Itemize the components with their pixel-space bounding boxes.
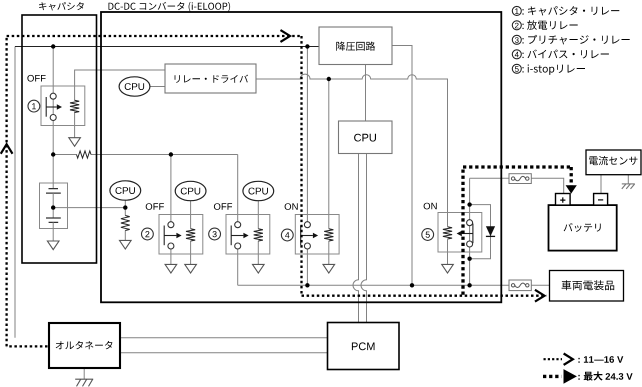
fuse F2 (vehicle loads feed)	[509, 280, 531, 291]
label step-down circuit	[336, 42, 375, 51]
EDLC capacitor element box	[40, 183, 68, 229]
wire relay5 switch vertical	[469, 178, 471, 285]
wire alternator to PCM (2 lines)	[120, 338, 328, 353]
arrow up 11-16V	[1, 144, 12, 153]
block battery	[549, 205, 617, 251]
ground (relay5 coil)	[442, 264, 454, 273]
wire capacitor branch vertical	[52, 47, 54, 189]
CPU (capacitor sense)	[110, 181, 141, 200]
label - terminal	[598, 199, 603, 200]
label ON relay4	[285, 203, 298, 210]
chassis ground (alternator)	[75, 378, 93, 380]
node discharge left	[51, 152, 55, 156]
node capacitor branch	[51, 44, 55, 48]
legend 11-16V arrow	[565, 354, 573, 364]
capacitor unit enclosure box	[22, 15, 97, 263]
node CPU sense	[123, 205, 127, 209]
wire relay2 switch ground lead	[170, 249, 172, 265]
block current sensor	[586, 150, 641, 175]
battery + terminal	[556, 194, 571, 206]
wire relay4 switch out	[306, 249, 308, 285]
legend relay 2	[512, 21, 521, 30]
label ON relay5	[424, 203, 437, 210]
arrow right 11-16V top	[281, 31, 290, 42]
diode D1 (relay5 bypass)	[486, 226, 495, 236]
fuse F1 (battery feed)	[509, 174, 531, 184]
designator 4	[281, 229, 293, 241]
capacitor C2 plates	[46, 218, 61, 222]
designator 2	[142, 228, 154, 240]
legend relay 4	[512, 50, 521, 59]
block alternator	[49, 323, 120, 368]
wire CPU1 to relay driver	[150, 86, 165, 88]
wire relay driver output bus	[256, 74, 448, 226]
designator 1	[28, 100, 40, 112]
label capacitor unit	[39, 2, 84, 11]
24.3V thick dotted boundary	[463, 167, 571, 295]
11-16V dotted path (alternator-top-vehicle loads)	[7, 36, 547, 346]
wire CPU sense drop	[124, 200, 126, 240]
node stepdown out	[410, 283, 414, 287]
node bypass feed	[305, 44, 309, 48]
label PCM	[352, 342, 375, 350]
legend 11-16V text	[578, 356, 593, 363]
designator 5	[422, 229, 434, 241]
label relay driver	[175, 75, 249, 83]
wire stepdown right feed	[392, 46, 412, 286]
wire diode branch	[470, 205, 491, 259]
node relay5 out	[467, 283, 471, 287]
wire relay1 coil to driver	[75, 70, 165, 101]
node relay4 coil tap	[327, 77, 331, 81]
wire relay3 coil leads	[257, 200, 259, 264]
wire relay4 coil drop	[328, 79, 330, 264]
wire relay1 coil ground lead	[74, 112, 76, 138]
wire discharge line y155	[53, 155, 238, 222]
legend relay 1	[512, 6, 521, 15]
legend relay 5	[512, 64, 521, 73]
arrow down 24.3V to battery	[566, 185, 577, 193]
label vehicle electrical components	[562, 280, 615, 290]
block vehicle electrical components	[550, 271, 624, 302]
wire current sensor ground lead	[627, 175, 629, 184]
label DC-DC converter (i-ELOOP)	[109, 2, 231, 12]
wire CPU-PCM line 1	[353, 154, 358, 323]
ground (capacitor)	[47, 241, 59, 250]
wire relay2 switch tap	[170, 155, 172, 223]
block main CPU box	[339, 121, 393, 154]
legend 24.3V text	[578, 375, 579, 380]
legend relay 3	[512, 35, 521, 44]
resistor discharge R	[77, 151, 92, 158]
ground (relay2 coil)	[185, 264, 197, 273]
relay K4 (bypass relay)	[295, 215, 339, 255]
block PCM	[328, 323, 400, 370]
legend 24.3V sample line	[543, 375, 562, 378]
wire alternator ground lead	[83, 368, 85, 379]
label alternator	[56, 341, 113, 349]
relay K3 (precharge relay)	[226, 215, 270, 255]
label OFF relay1	[27, 75, 45, 82]
relay K5 (i-stop relay)	[438, 213, 482, 253]
wire capacitor mid sense	[53, 207, 125, 209]
ground (relay1 coil)	[69, 138, 81, 147]
capacitor C1 plates	[46, 189, 61, 194]
wire stepdown to CPU	[365, 65, 367, 122]
wire battery minus to current sensor	[600, 175, 602, 194]
DC-DC converter enclosure box	[101, 12, 501, 302]
label OFF relay2	[146, 203, 164, 210]
CPU (relay3 ctrl)	[243, 181, 274, 200]
label CPU box	[354, 134, 376, 142]
wire output bus y285	[238, 284, 550, 286]
ground (relay3 coil)	[253, 264, 265, 273]
ground (sense resistor)	[120, 240, 132, 249]
ground (relay4 coil)	[323, 264, 335, 273]
wire fuse line to battery +	[470, 178, 564, 193]
label OFF relay3	[214, 203, 232, 210]
label current sensor	[589, 156, 637, 165]
relay K2 (discharge relay)	[159, 215, 203, 255]
resistor sense divider	[121, 216, 130, 231]
node relay5 bottom/diode	[467, 257, 471, 261]
arrow right 11-16V vehicle loads	[536, 290, 545, 301]
designator 3	[209, 228, 221, 240]
battery - terminal	[594, 194, 608, 206]
label + terminal	[560, 197, 565, 202]
wire alternator B+ riser	[14, 47, 16, 338]
ground (relay2 switch)	[165, 264, 177, 273]
capacitor bottom lead	[52, 222, 54, 241]
CPU (relay2 ctrl)	[175, 181, 206, 200]
capacitor mid wire	[52, 193, 54, 218]
wire relay3 switch out	[237, 249, 239, 285]
node capacitor mid	[51, 205, 55, 209]
legend 11-16V sample line	[544, 358, 563, 360]
node relay4 out	[305, 283, 309, 287]
node relay2 tap	[169, 152, 173, 156]
label battery	[564, 223, 601, 232]
legend 24.3V arrow	[564, 369, 577, 384]
block relay driver U-drv	[165, 64, 256, 93]
node relay5 top/diode	[467, 202, 471, 206]
relay K1 (capacitor relay) box+switch+coil	[41, 86, 85, 126]
wire relay5 coil ground lead	[447, 240, 449, 265]
wire main B+ bus (top)	[15, 46, 319, 48]
wire relay2 coil leads	[190, 200, 192, 264]
chassis ground (current sensor)	[622, 183, 635, 185]
block step-down circuit	[319, 27, 392, 65]
CPU (relay driver ctrl)	[119, 77, 150, 96]
wire CPU-PCM line 2	[361, 154, 366, 323]
wire relay4 switch feed	[306, 47, 308, 222]
